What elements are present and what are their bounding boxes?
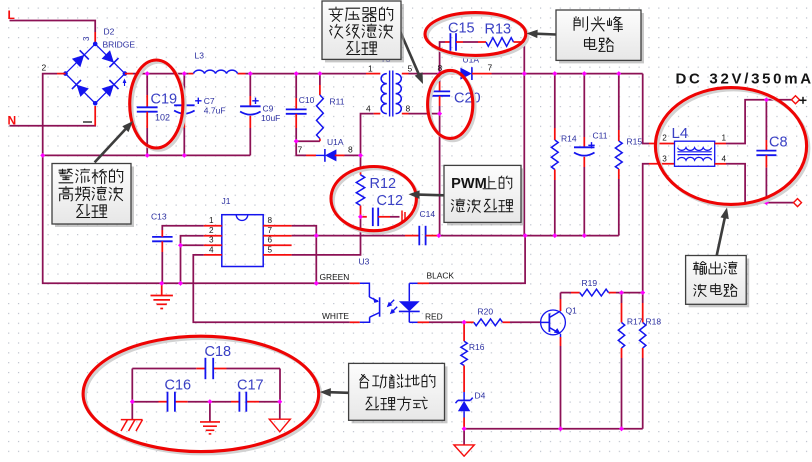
junction C9 top: [248, 71, 253, 76]
wire pin7 to GREEN: [315, 236, 317, 284]
svg-text:2: 2: [42, 63, 47, 73]
wire DC+ rail primary: [125, 73, 380, 75]
svg-text:6: 6: [268, 236, 273, 245]
wire BLACK: [418, 236, 526, 284]
svg-text:L4: L4: [672, 125, 689, 142]
svg-text:R12: R12: [370, 176, 397, 192]
junction snubber rail: [522, 71, 527, 76]
svg-text:R17: R17: [627, 317, 643, 327]
junction C16 right: [208, 399, 213, 404]
capacitor C7: [174, 74, 225, 156]
arrow to C19: [95, 121, 133, 162]
resistor R17: [618, 293, 642, 429]
svg-text:1: 1: [209, 216, 214, 225]
callout box PWM filter: [444, 165, 524, 225]
svg-text:3: 3: [662, 155, 667, 164]
wire Q1 emitter: [560, 334, 562, 429]
callout box rectifier filter: [52, 164, 134, 228]
junction C19 top: [145, 71, 150, 76]
wire bridge pin2 to DC- rail: [43, 74, 66, 156]
svg-text:BLACK: BLACK: [427, 271, 455, 281]
svg-text:C14: C14: [420, 209, 436, 219]
wire J1 pin5 to R12 node: [292, 217, 361, 255]
wire C20 to ground rail: [439, 114, 441, 236]
svg-text:R16: R16: [469, 342, 485, 352]
capacitor C8: [756, 100, 787, 203]
junction node8: [437, 71, 442, 76]
svg-text:C17: C17: [237, 378, 264, 394]
capacitor C19: [137, 74, 177, 156]
svg-text:102: 102: [155, 113, 170, 123]
svg-text:7: 7: [268, 226, 273, 235]
svg-text:GREEN: GREEN: [320, 272, 350, 282]
resistor R13: [463, 22, 520, 47]
svg-text:R13: R13: [485, 22, 512, 38]
junction C8 bottom: [764, 200, 769, 205]
resistor R16: [461, 322, 485, 365]
wire secondary plus rail: [492, 74, 675, 144]
highlight ellipse C19: [130, 60, 186, 150]
callout box ground handling: [349, 363, 448, 423]
highlight ellipse C20: [428, 70, 476, 140]
capacitor C20: [429, 74, 481, 114]
wire snubber leg down: [523, 74, 525, 236]
resistor R18: [640, 293, 662, 429]
junction R18 top: [640, 290, 645, 295]
resistor R14: [551, 74, 576, 236]
J1 pin numbers: [209, 216, 273, 254]
junction C19 bottom: [145, 153, 150, 158]
wire pin5 to node8: [409, 73, 440, 75]
wire junction to U1A anode: [296, 141, 316, 155]
wire secondary ground rail: [439, 235, 619, 237]
svg-text:C16: C16: [165, 378, 192, 394]
wire R20 to Q1 base: [510, 321, 541, 323]
svg-text:1: 1: [368, 64, 373, 74]
svg-text:C11: C11: [593, 131, 608, 141]
ground signal right: [269, 402, 290, 432]
junction R17 top: [619, 290, 624, 295]
junction dots overlay: [40, 71, 769, 431]
capacitor C9: [240, 74, 280, 156]
junction C12 node: [358, 214, 363, 219]
junction C10 top: [294, 71, 299, 76]
highlight ellipse C15 R13: [425, 13, 528, 58]
diode U1A top: [438, 55, 493, 81]
capacitor C14: [405, 209, 439, 245]
svg-text:PWM: PWM: [451, 176, 487, 192]
wire L4 pin4 to minus terminal: [715, 164, 795, 203]
inductor L3: [194, 51, 238, 74]
svg-text:5: 5: [408, 64, 413, 74]
junction pin3: [178, 243, 183, 248]
junction Q1 emitter rail: [558, 426, 563, 431]
capacitor C10: [286, 74, 315, 142]
arrow to R13: [527, 30, 557, 38]
svg-text:8: 8: [268, 216, 273, 225]
svg-text:4: 4: [366, 103, 371, 113]
connector J1: [204, 196, 292, 267]
resistor R11: [296, 74, 345, 142]
svg-text:R15: R15: [627, 137, 643, 147]
svg-text:C20: C20: [454, 91, 481, 107]
svg-text:RED: RED: [425, 312, 443, 322]
svg-text:R18: R18: [646, 317, 662, 327]
svg-text:C7: C7: [204, 96, 215, 106]
junction C7 top: [182, 71, 187, 76]
svg-text:R14: R14: [561, 134, 577, 144]
svg-text:3: 3: [209, 236, 214, 245]
node L: [8, 8, 15, 22]
highlight ellipse L4 C8: [655, 88, 809, 207]
wire GREEN net: [43, 155, 360, 283]
junction bridge left rail: [40, 153, 45, 158]
capacitor C12: [361, 193, 406, 226]
svg-text:U1A: U1A: [327, 137, 344, 147]
junction C13 ground: [159, 281, 164, 286]
svg-text:R20: R20: [478, 307, 494, 317]
capacitor C13: [151, 212, 204, 284]
svg-text:1: 1: [722, 134, 727, 143]
highlight ellipse C16 C17 C18: [83, 336, 321, 454]
svg-text:BRIDGE: BRIDGE: [103, 40, 136, 50]
svg-text:U3: U3: [359, 257, 370, 267]
junction C10 R11: [294, 139, 299, 144]
svg-text:C15: C15: [448, 21, 475, 37]
wire J1 pin2 pin3: [181, 236, 204, 246]
junction RED node: [462, 320, 467, 325]
junction GREEN right: [314, 281, 319, 286]
junction C11 bottom: [582, 233, 587, 238]
junction R17 bottom: [619, 426, 624, 431]
svg-text:4.7uF: 4.7uF: [204, 106, 226, 116]
highlight ellipse R12 C12: [331, 167, 419, 233]
svg-text:10uF: 10uF: [261, 113, 280, 123]
svg-text:8: 8: [348, 145, 353, 155]
transformer T3: [366, 54, 413, 117]
resistor R19: [580, 278, 609, 296]
capacitor C15: [445, 21, 475, 51]
wire R13 to rail: [520, 42, 524, 74]
wire U1A to R12 node: [345, 154, 361, 156]
svg-text:2: 2: [662, 134, 667, 143]
svg-text:Q1: Q1: [566, 306, 578, 316]
resistor R12: [356, 155, 396, 216]
arrow to L4 ellipse: [717, 208, 729, 256]
svg-text:L3: L3: [195, 51, 205, 61]
ground signal below D4: [454, 429, 474, 456]
capacitor C17: [237, 378, 264, 412]
junction C14 right: [436, 233, 441, 238]
ground chassis left: [121, 402, 143, 431]
svg-text:5: 5: [268, 245, 273, 254]
terminal plus: [792, 96, 807, 104]
inductor L4: [662, 125, 726, 166]
junction R14 bottom: [552, 233, 557, 238]
svg-text:R19: R19: [582, 278, 598, 288]
svg-text:DC 32V/350mA: DC 32V/350mA: [676, 71, 812, 88]
wire N to bridge: [10, 106, 97, 126]
wire transformer pin4: [361, 114, 381, 156]
wire RED: [418, 312, 465, 323]
svg-text:D2: D2: [104, 27, 115, 37]
junction C16 left: [130, 399, 135, 404]
label DC 32V/350mA: [676, 71, 812, 88]
ground earth opto rail: [151, 283, 173, 308]
svg-text:2: 2: [209, 226, 214, 235]
svg-text:C19: C19: [151, 92, 178, 108]
junction D4 rail: [462, 426, 467, 431]
svg-text:C13: C13: [151, 212, 167, 222]
junction BLACK leg: [523, 233, 528, 238]
junction R12 node top: [358, 153, 363, 158]
junction C8 top: [764, 97, 769, 102]
svg-text:3: 3: [82, 36, 91, 41]
svg-text:8: 8: [406, 104, 411, 114]
arrow to C20: [400, 31, 423, 84]
svg-text:C10: C10: [299, 95, 315, 105]
svg-text:C9: C9: [263, 104, 274, 114]
wire pin8 to rail: [292, 226, 317, 236]
junction C20 bottom: [437, 111, 442, 116]
wire C18 top row: [132, 369, 280, 402]
svg-text:4: 4: [209, 245, 214, 254]
bridge rectifier D2: [42, 27, 136, 106]
wire node8 up to snubber: [440, 42, 445, 74]
wire pin8 to C20: [409, 113, 440, 115]
callout box output filter: [686, 256, 750, 308]
wire L4 pin1 to plus terminal: [715, 100, 793, 144]
junction C17 right: [277, 399, 282, 404]
diode U1A bottom: [298, 137, 354, 162]
svg-text:7: 7: [298, 145, 303, 155]
svg-text:4: 4: [722, 155, 727, 164]
svg-text:C8: C8: [769, 135, 788, 151]
capacitor C18: [205, 344, 232, 379]
wire J1 pin4 WHITE: [193, 255, 359, 322]
wire DC- rail: [43, 154, 251, 156]
callout box spike clipper: [556, 10, 644, 63]
wire pin3 to GREEN: [180, 245, 182, 283]
wire bottom ground rail: [464, 428, 643, 430]
callout box transformer secondary filter: [322, 1, 404, 62]
svg-text:WHITE: WHITE: [322, 311, 349, 321]
wire R19 row: [561, 292, 643, 294]
wire C16 C17 row: [132, 401, 280, 403]
wire L to bridge: [10, 21, 96, 43]
junction pin7 rail: [314, 233, 319, 238]
junction R15 top: [616, 71, 621, 76]
junction C7 bottom: [182, 153, 187, 158]
resistor R15: [615, 74, 642, 236]
ground earth center: [200, 402, 220, 434]
zener diode D4: [456, 366, 486, 429]
svg-text:D4: D4: [475, 391, 486, 401]
svg-text:J1: J1: [222, 196, 231, 206]
svg-text:R11: R11: [330, 97, 345, 107]
svg-text:C18: C18: [205, 344, 232, 360]
wire L4 pin3 leg: [643, 164, 675, 293]
optocoupler U3: [359, 257, 420, 323]
capacitor C11: [574, 74, 608, 236]
wire pin7 rail: [292, 235, 405, 237]
junction C11 top: [582, 71, 587, 76]
junction R11 top: [318, 71, 323, 76]
wire Q1 collector: [560, 293, 562, 311]
junction GREEN left: [178, 281, 183, 286]
arrow to ground cluster: [320, 388, 349, 397]
capacitor C16: [165, 378, 192, 412]
terminal minus: [794, 199, 802, 207]
node N: [8, 114, 17, 128]
transistor Q1: [541, 306, 578, 335]
arrow to R12: [409, 190, 445, 199]
resistor R20: [464, 307, 510, 326]
svg-text:C12: C12: [377, 193, 404, 209]
junction R14 top: [552, 71, 557, 76]
svg-text:7: 7: [488, 63, 493, 73]
